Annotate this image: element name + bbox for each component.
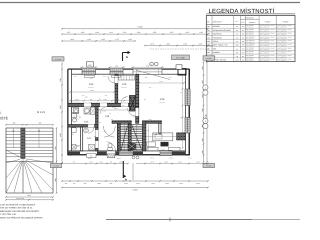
svg-text:BÍLÁ 2x, OTĚR. TŘ. I: BÍLÁ 2x, OTĚR. TŘ. I xyxy=(260,56,271,58)
svg-text:BÍLÁ 2x, OTĚR. TŘ. I: BÍLÁ 2x, OTĚR. TŘ. I xyxy=(260,34,271,36)
svg-text:2150: 2150 xyxy=(89,78,92,80)
svg-text:450: 450 xyxy=(151,141,153,143)
svg-text:425: 425 xyxy=(122,105,124,107)
svg-text:900: 900 xyxy=(72,134,74,136)
svg-text:850: 850 xyxy=(99,99,102,101)
svg-text:PVC SOKL 8 mm: PVC SOKL 8 mm xyxy=(246,45,254,47)
svg-text:BÍLÁ 2x, OTĚR. TŘ. I: BÍLÁ 2x, OTĚR. TŘ. I xyxy=(277,56,288,58)
svg-text:1450: 1450 xyxy=(102,111,105,113)
svg-text:1800: 1800 xyxy=(148,119,151,121)
svg-text:9950: 9950 xyxy=(204,114,207,118)
svg-text:BÍLÁ 2x, OTĚR. TŘ. I: BÍLÁ 2x, OTĚR. TŘ. I xyxy=(260,38,271,40)
svg-text:750: 750 xyxy=(99,122,101,124)
svg-text:14050: 14050 xyxy=(132,188,137,191)
svg-text:150: 150 xyxy=(70,105,72,107)
svg-text:BÍLÁ 2x, OTĚR. TŘ. I: BÍLÁ 2x, OTĚR. TŘ. I xyxy=(260,42,271,44)
svg-text:975: 975 xyxy=(117,99,120,101)
svg-text:1: 1 xyxy=(151,63,152,66)
svg-text:2450: 2450 xyxy=(162,149,165,151)
svg-text:250: 250 xyxy=(90,102,92,104)
svg-text:250: 250 xyxy=(145,77,147,79)
svg-text:Ý 297 ČSN 1:10.: Ý 297 ČSN 1:10. xyxy=(0,213,17,216)
svg-text:1340: 1340 xyxy=(75,99,78,101)
svg-text:ETO 2: ETO 2 xyxy=(150,158,154,160)
svg-text:1700: 1700 xyxy=(82,95,85,97)
svg-text:BÍLÁ 2x, OTĚR. TŘ. I: BÍLÁ 2x, OTĚR. TŘ. I xyxy=(260,60,271,62)
svg-text:PVC SOKL 8 mm: PVC SOKL 8 mm xyxy=(246,49,254,51)
svg-text:PODLAHA: PODLAHA xyxy=(246,16,255,19)
svg-text:1025: 1025 xyxy=(103,131,106,133)
svg-text:12,1 m2: 12,1 m2 xyxy=(88,87,93,89)
svg-text:600: 600 xyxy=(74,76,76,78)
svg-text:BÍLÁ 2x, OTĚR. TŘ. I: BÍLÁ 2x, OTĚR. TŘ. I xyxy=(260,45,271,47)
svg-text:885: 885 xyxy=(79,117,81,119)
svg-text:300: 300 xyxy=(144,99,146,101)
svg-text:BÍLÁ 2x, OTĚR. TŘ. I: BÍLÁ 2x, OTĚR. TŘ. I xyxy=(260,27,271,29)
svg-text:750: 750 xyxy=(180,117,182,119)
svg-text:BÍLÁ 2x, OTĚR. TŘ. I: BÍLÁ 2x, OTĚR. TŘ. I xyxy=(260,49,271,51)
svg-text:BÍLÁ 2x, OTĚR. TŘ. I: BÍLÁ 2x, OTĚR. TŘ. I xyxy=(277,34,288,36)
svg-text:BÍLÁ 2x, OTĚR. TŘ. I: BÍLÁ 2x, OTĚR. TŘ. I xyxy=(277,53,288,55)
svg-text:BÍLÁ 2x, OTĚR. TŘ. I: BÍLÁ 2x, OTĚR. TŘ. I xyxy=(277,30,288,32)
svg-text:1800: 1800 xyxy=(169,77,172,79)
svg-text:BÍLÁ 2x, OTĚR. TŘ. I: BÍLÁ 2x, OTĚR. TŘ. I xyxy=(277,45,288,47)
svg-text:EV.VZ50: EV.VZ50 xyxy=(206,58,212,60)
svg-text:EV.VZ50: EV.VZ50 xyxy=(53,166,59,168)
svg-text:12,1 m2: 12,1 m2 xyxy=(121,87,126,89)
svg-text:ETO 2: ETO 2 xyxy=(169,158,173,160)
svg-text:ŠTĚ DO FORMY 297 ČSN 73 41.: ŠTĚ DO FORMY 297 ČSN 73 41. xyxy=(0,207,33,210)
svg-text:BÍLÁ 2x, OTĚR. TŘ. I: BÍLÁ 2x, OTĚR. TŘ. I xyxy=(260,53,271,55)
svg-text:4: 4 xyxy=(205,87,206,90)
svg-text:900: 900 xyxy=(147,130,149,132)
svg-text:1500: 1500 xyxy=(146,65,149,67)
svg-text:800: 800 xyxy=(129,99,132,101)
svg-text:STROP: STROP xyxy=(283,21,290,24)
svg-text:PVC SOKL 8 mm: PVC SOKL 8 mm xyxy=(246,60,254,62)
svg-text:600: 600 xyxy=(124,97,127,99)
svg-text:EV. VZ80: EV. VZ80 xyxy=(176,56,185,59)
svg-text:1.05: 1.05 xyxy=(122,83,127,86)
svg-text:12,1 m2: 12,1 m2 xyxy=(83,124,88,126)
svg-text:600: 600 xyxy=(90,156,93,158)
svg-text:BÍLÁ 2x, OTĚR. TŘ. I: BÍLÁ 2x, OTĚR. TŘ. I xyxy=(277,38,288,40)
svg-text:1.06: 1.06 xyxy=(160,98,165,101)
svg-text:2400: 2400 xyxy=(84,97,87,99)
svg-text:BÍLÁ 2x, OTĚR. TŘ. I: BÍLÁ 2x, OTĚR. TŘ. I xyxy=(277,49,288,51)
svg-text:2125: 2125 xyxy=(59,105,62,109)
svg-text:MBOVANÉ VODOROVNÉ SCHODIŠTĚ: MBOVANÉ VODOROVNÉ SCHODIŠTĚ xyxy=(0,210,40,213)
svg-text:12,1 m2: 12,1 m2 xyxy=(159,102,164,104)
svg-text:O ZE SCHODIŠTĚ S OBKLADEM A: O ZE SCHODIŠTĚ S OBKLADEM A xyxy=(0,204,36,207)
svg-text:ETO 1: ETO 1 xyxy=(188,158,192,160)
svg-text:1950: 1950 xyxy=(59,133,62,137)
svg-text:IŠTĚ: IŠTĚ xyxy=(0,116,9,121)
svg-text:PVC SOKL 8 mm: PVC SOKL 8 mm xyxy=(246,53,254,55)
svg-text:1.04: 1.04 xyxy=(89,83,94,86)
svg-text:PVC SOKL 8 mm: PVC SOKL 8 mm xyxy=(246,42,254,44)
svg-text:1500: 1500 xyxy=(115,65,118,67)
svg-text:PVC SOKL 8 mm: PVC SOKL 8 mm xyxy=(246,38,254,40)
svg-text:GV: GV xyxy=(88,64,92,67)
svg-text:M 1:25: M 1:25 xyxy=(37,111,45,114)
svg-text:BÍLÁ 2x, OTĚR. TŘ. I: BÍLÁ 2x, OTĚR. TŘ. I xyxy=(260,30,271,32)
svg-text:900: 900 xyxy=(90,99,93,101)
svg-text:900: 900 xyxy=(105,95,107,97)
svg-text:1.03: 1.03 xyxy=(84,121,89,124)
svg-text:4: 4 xyxy=(205,120,206,123)
svg-text:BÍLÁ 2x, OTĚR. TŘ. I: BÍLÁ 2x, OTĚR. TŘ. I xyxy=(277,42,288,44)
svg-text:EV.VZ50: EV.VZ50 xyxy=(206,165,212,167)
svg-text:450: 450 xyxy=(103,76,105,78)
svg-text:750: 750 xyxy=(180,92,182,94)
svg-text:450: 450 xyxy=(149,87,152,89)
svg-text:PVC SOKL 8 mm: PVC SOKL 8 mm xyxy=(246,56,254,58)
svg-text:BÍLÁ 2x, OTĚR. TŘ. I: BÍLÁ 2x, OTĚR. TŘ. I xyxy=(277,27,288,29)
svg-text:MÍSTNOST: MÍSTNOST xyxy=(213,21,222,24)
svg-text:2750: 2750 xyxy=(59,78,62,82)
svg-text:1450: 1450 xyxy=(103,99,106,101)
svg-text:14050: 14050 xyxy=(137,26,142,29)
svg-text:885: 885 xyxy=(94,136,96,138)
svg-text:PVC SOKL 8 mm: PVC SOKL 8 mm xyxy=(246,34,254,36)
svg-text:600: 600 xyxy=(111,119,113,121)
svg-text:PVC SOKL 8 mm: PVC SOKL 8 mm xyxy=(246,30,254,32)
svg-text:NACE VIZ PŘÍLOHA TECHNICKÉ ZPR: NACE VIZ PŘÍLOHA TECHNICKÉ ZPRÁVY. xyxy=(0,216,43,219)
svg-text:PVC SOKL 8 mm: PVC SOKL 8 mm xyxy=(246,27,254,29)
svg-text:STĚNA: STĚNA xyxy=(265,21,272,24)
svg-text:2450: 2450 xyxy=(159,135,162,137)
svg-text:BÍLÁ 2x, OTĚR. TŘ. I: BÍLÁ 2x, OTĚR. TŘ. I xyxy=(277,60,288,62)
